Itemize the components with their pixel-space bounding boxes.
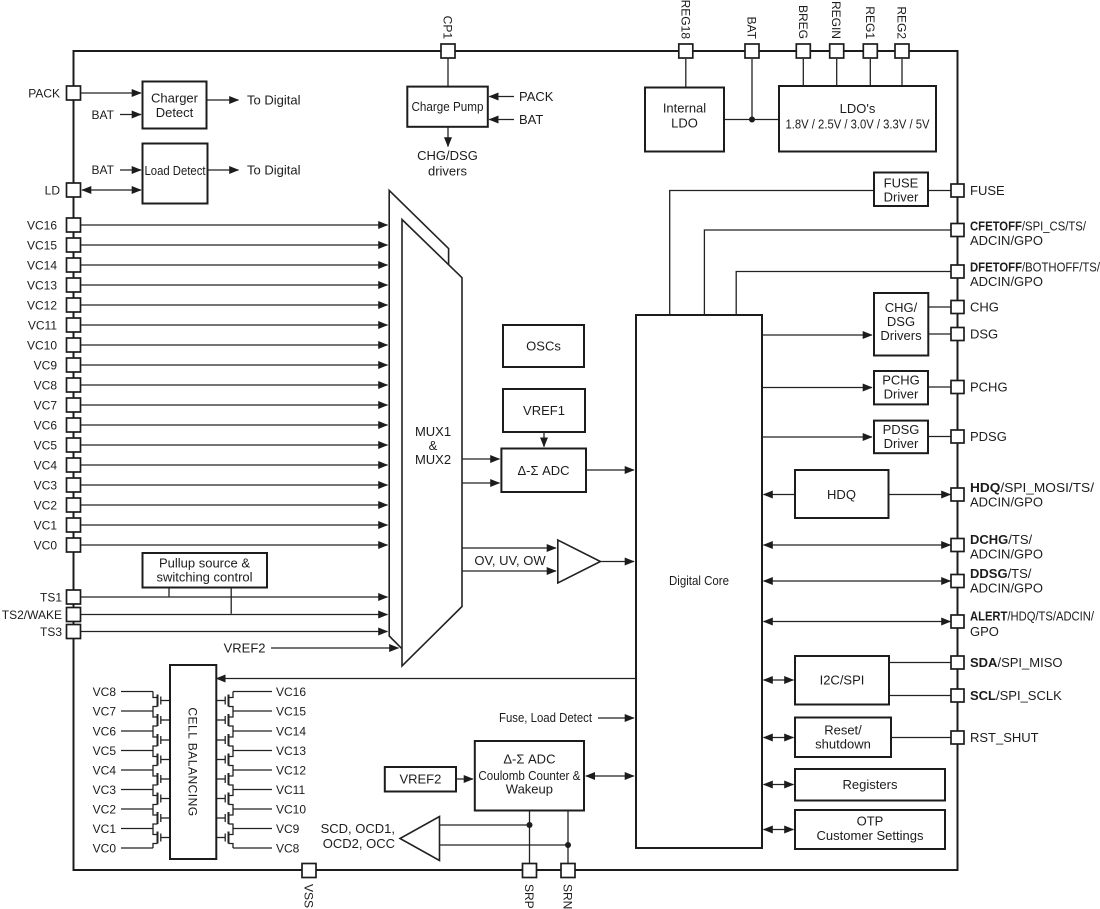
wire TS3 pin to MUX xyxy=(81,631,388,633)
svg-text:VC0: VC0 xyxy=(34,539,58,553)
mux front outline MUX1 xyxy=(402,220,462,667)
wire VREF2 to Coulomb ADC xyxy=(456,778,473,780)
wire HDQ to HDQ pin xyxy=(889,494,951,496)
pin RST_SHUT xyxy=(951,731,964,744)
svg-text:SDA/SPI_MISO: SDA/SPI_MISO xyxy=(970,655,1062,670)
svg-text:Driver: Driver xyxy=(884,387,919,402)
pin VC10 xyxy=(67,338,81,352)
pin HDQ xyxy=(951,488,964,501)
pin VC3 xyxy=(67,478,81,492)
transistor cell balance left Q4 xyxy=(153,751,170,771)
svg-text:VC7: VC7 xyxy=(34,399,58,413)
pin TS1 xyxy=(67,590,81,604)
svg-text:ADCIN/GPO: ADCIN/GPO xyxy=(970,495,1043,510)
wire VC13 to balance FET right xyxy=(233,750,272,752)
svg-text:BAT: BAT xyxy=(92,163,115,177)
pin VC15 xyxy=(67,238,81,252)
svg-text:Fuse, Load Detect: Fuse, Load Detect xyxy=(499,710,592,725)
wire FUSE Driver to FUSE pin xyxy=(928,190,951,192)
wire VC10 to balance FET right xyxy=(233,808,272,810)
pin PACK xyxy=(67,86,81,100)
svg-text:VC8: VC8 xyxy=(34,379,58,393)
pin VC2 xyxy=(67,498,81,512)
mux back outline MUX2 xyxy=(389,190,448,648)
svg-text:OTP: OTP xyxy=(857,814,884,829)
block Reset/shutdown xyxy=(795,718,891,758)
pin VC11 xyxy=(67,318,81,332)
wire Digital Core to I2C/SPI xyxy=(764,679,794,681)
svg-text:FUSE: FUSE xyxy=(884,176,919,191)
svg-text:Registers: Registers xyxy=(843,777,898,792)
svg-text:Detect: Detect xyxy=(156,105,194,120)
wire MUX to OV comparator in1 xyxy=(462,547,556,549)
wire comparator to Digital Core xyxy=(600,561,634,563)
wire Digital Core to DDSG pin xyxy=(764,580,951,582)
wire VC9 pin to MUX xyxy=(81,364,388,366)
pin VC13 xyxy=(67,278,81,292)
svg-text:VREF2: VREF2 xyxy=(399,772,441,787)
svg-text:Load Detect: Load Detect xyxy=(145,163,206,178)
wire ADC to Digital Core xyxy=(586,469,634,471)
wire Load Detect to digital xyxy=(208,169,239,171)
svg-text:Drivers: Drivers xyxy=(880,328,922,343)
wire Digital Core to PCHG Driver xyxy=(762,387,872,389)
pin REGIN xyxy=(830,44,844,58)
pin BREG xyxy=(796,44,810,58)
wire Digital Core to HDQ xyxy=(764,494,796,496)
block VREF2 reference xyxy=(385,767,456,792)
svg-text:PACK: PACK xyxy=(519,89,554,104)
wire REG1 pin to LDOs xyxy=(869,59,871,87)
block Digital Core xyxy=(636,315,762,848)
wire FUSE Driver to Digital Core xyxy=(670,191,874,316)
transistor cell balance left Q7 xyxy=(153,809,170,829)
svg-text:SCL/SPI_SCLK: SCL/SPI_SCLK xyxy=(970,688,1062,703)
pin VSS xyxy=(302,864,316,878)
svg-text:CP1: CP1 xyxy=(441,16,455,40)
svg-text:VC16: VC16 xyxy=(27,219,57,233)
block FUSE Driver xyxy=(874,173,928,207)
transistor cell balance left Q3 xyxy=(153,731,170,751)
svg-text:Reset/: Reset/ xyxy=(824,723,862,738)
svg-text:DSG: DSG xyxy=(970,327,998,342)
svg-text:Δ-Σ ADC: Δ-Σ ADC xyxy=(517,463,569,478)
svg-text:To Digital: To Digital xyxy=(247,93,301,108)
wire pullup control to TS2 line xyxy=(230,588,232,614)
svg-text:VC2: VC2 xyxy=(34,499,58,513)
svg-text:OV, UV, OW: OV, UV, OW xyxy=(474,553,546,568)
svg-text:REG1: REG1 xyxy=(863,6,877,39)
svg-text:ADCIN/GPO: ADCIN/GPO xyxy=(970,581,1043,596)
wire VC14 to balance FET right xyxy=(233,730,272,732)
svg-text:Charge Pump: Charge Pump xyxy=(412,99,484,114)
wire VC6 to balance FET left xyxy=(121,730,153,732)
svg-text:DSG: DSG xyxy=(887,314,915,329)
wire CHG Drivers to CHG pin xyxy=(928,306,950,308)
pin LD xyxy=(67,183,81,197)
svg-text:VC8: VC8 xyxy=(93,685,117,699)
wire Coulomb ADC to SRN pin xyxy=(567,811,569,864)
wire VC11 pin to MUX xyxy=(81,324,388,326)
wire VC3 to balance FET left xyxy=(121,789,153,791)
transistor cell balance right Q10 xyxy=(216,711,233,731)
svg-text:ADCIN/GPO: ADCIN/GPO xyxy=(970,233,1043,248)
svg-text:BAT: BAT xyxy=(745,17,759,40)
wire VC4 pin to MUX xyxy=(81,464,388,466)
wire VC6 pin to MUX xyxy=(81,424,388,426)
wire VC13 pin to MUX xyxy=(81,284,388,286)
transistor cell balance right Q11 xyxy=(216,731,233,751)
pin VC9 xyxy=(67,358,81,372)
svg-text:HDQ: HDQ xyxy=(827,487,856,502)
svg-text:PACK: PACK xyxy=(28,87,60,101)
wire PCHG Driver to PCHG pin xyxy=(928,386,951,388)
wire VC5 pin to MUX xyxy=(81,444,388,446)
svg-text:VC4: VC4 xyxy=(93,764,117,778)
svg-text:VC11: VC11 xyxy=(28,319,57,333)
svg-text:BREG: BREG xyxy=(796,5,810,39)
svg-text:Charger: Charger xyxy=(151,91,199,106)
transistor cell balance right Q9 xyxy=(216,692,233,712)
wire REGIN pin to LDOs xyxy=(836,59,838,87)
wire VC14 pin to MUX xyxy=(81,264,388,266)
svg-text:1.8V / 2.5V / 3.0V / 3.3V / 5V: 1.8V / 2.5V / 3.0V / 3.3V / 5V xyxy=(786,117,930,132)
wire TS2/WAKE pin to MUX xyxy=(81,614,388,616)
wire Digital Core to DCHG pin xyxy=(764,544,951,546)
wire VC3 pin to MUX xyxy=(81,484,388,486)
svg-text:LDO: LDO xyxy=(671,116,698,131)
svg-text:OSCs: OSCs xyxy=(526,339,561,354)
svg-text:PCHG: PCHG xyxy=(970,380,1008,395)
svg-text:VC9: VC9 xyxy=(276,822,300,836)
pin PCHG xyxy=(951,381,964,394)
svg-text:LD: LD xyxy=(45,184,61,198)
svg-text:TS2/WAKE: TS2/WAKE xyxy=(2,608,62,622)
pin SDA xyxy=(951,656,964,669)
svg-text:VC15: VC15 xyxy=(27,239,57,253)
wire VC0 pin to MUX xyxy=(81,544,388,546)
wire VC8 pin to MUX xyxy=(81,384,388,386)
wire VC9 to balance FET right xyxy=(233,828,272,830)
wire VC2 to balance FET left xyxy=(121,808,153,810)
svg-text:PDSG: PDSG xyxy=(883,422,920,437)
wire VC8 to balance FET right xyxy=(233,847,272,849)
svg-text:switching control: switching control xyxy=(156,570,252,585)
svg-text:MUX2: MUX2 xyxy=(415,452,451,467)
wire BREG pin to LDOs xyxy=(802,59,804,87)
svg-text:VC13: VC13 xyxy=(276,744,306,758)
block Load Detect xyxy=(143,144,208,204)
svg-text:Wakeup: Wakeup xyxy=(506,782,553,797)
wire VC8 to balance FET left xyxy=(121,691,153,693)
wire Digital Core to ALERT pin xyxy=(764,621,951,623)
svg-text:OCD2, OCC: OCD2, OCC xyxy=(323,836,395,851)
transistor cell balance left Q5 xyxy=(153,770,170,790)
svg-text:VSS: VSS xyxy=(302,884,316,908)
svg-text:ADCIN/GPO: ADCIN/GPO xyxy=(970,547,1043,562)
svg-text:CHG: CHG xyxy=(970,300,999,315)
svg-text:VC5: VC5 xyxy=(34,439,58,453)
wire VC7 pin to MUX xyxy=(81,404,388,406)
wire VC15 pin to MUX xyxy=(81,244,388,246)
svg-text:CELL BALANCING: CELL BALANCING xyxy=(186,707,200,816)
svg-text:shutdown: shutdown xyxy=(815,737,871,752)
svg-text:VC16: VC16 xyxy=(276,685,306,699)
block HDQ xyxy=(795,470,889,518)
svg-text:Driver: Driver xyxy=(884,190,919,205)
block Pullup source and switching control xyxy=(143,553,268,588)
wire Coulomb ADC to SRP pin xyxy=(529,811,531,864)
wire Digital Core to PDSG Driver xyxy=(762,436,872,438)
svg-text:CFETOFF/SPI_CS/TS/: CFETOFF/SPI_CS/TS/ xyxy=(970,219,1086,234)
block Charger Detect xyxy=(143,82,207,129)
wire PACK pin to Charger Detect xyxy=(81,92,141,94)
wire VC5 to balance FET left xyxy=(121,750,153,752)
svg-text:GPO: GPO xyxy=(970,624,999,639)
transistor cell balance left Q6 xyxy=(153,790,170,810)
svg-text:VC4: VC4 xyxy=(34,459,58,473)
svg-text:SRN: SRN xyxy=(561,884,575,909)
svg-text:Digital Core: Digital Core xyxy=(669,573,729,588)
svg-text:FUSE: FUSE xyxy=(970,183,1005,198)
pin VC1 xyxy=(67,518,81,532)
wire TS1 pin to MUX xyxy=(81,596,388,598)
svg-text:VREF1: VREF1 xyxy=(523,403,565,418)
pin DFETOFF xyxy=(951,265,964,278)
wire MUX to ADC ch2 xyxy=(462,482,500,484)
pin SRP xyxy=(523,864,537,878)
pin VC4 xyxy=(67,458,81,472)
svg-text:VC12: VC12 xyxy=(276,764,306,778)
svg-text:VC3: VC3 xyxy=(34,479,58,493)
svg-text:DDSG/TS/: DDSG/TS/ xyxy=(970,566,1032,581)
svg-text:SRP: SRP xyxy=(522,884,536,909)
svg-text:CHG/DSG: CHG/DSG xyxy=(417,148,478,163)
wire BAT to Load Detect xyxy=(120,169,141,171)
wire Internal LDO to LDOs block xyxy=(724,119,779,121)
wire VC0 to balance FET left xyxy=(121,847,153,849)
wire VC12 to balance FET right xyxy=(233,769,272,771)
wire SRP sense to current comparator xyxy=(440,824,530,826)
wire VC2 pin to MUX xyxy=(81,504,388,506)
wire SRN sense to current comparator xyxy=(440,844,569,846)
svg-text:VC14: VC14 xyxy=(276,725,306,739)
pin CHG xyxy=(951,301,964,314)
svg-text:VC3: VC3 xyxy=(93,783,117,797)
block Delta-Sigma ADC xyxy=(501,449,586,493)
svg-text:REGIN: REGIN xyxy=(829,1,843,39)
svg-text:DFETOFF/BOTHOFF/TS/: DFETOFF/BOTHOFF/TS/ xyxy=(970,260,1100,275)
block Charge Pump xyxy=(407,87,488,127)
wire Digital Core to Reset/shutdown xyxy=(764,737,794,739)
comparator OV/UV/OW xyxy=(558,540,601,583)
svg-text:MUX1: MUX1 xyxy=(415,424,451,439)
transistor cell balance left Q8 xyxy=(153,829,170,849)
wire Charger Detect to digital xyxy=(207,99,239,101)
svg-text:DCHG/TS/: DCHG/TS/ xyxy=(970,532,1033,547)
block Cell Balancing xyxy=(170,665,216,859)
svg-text:Pullup source &: Pullup source & xyxy=(159,556,250,571)
pin VC14 xyxy=(67,258,81,272)
svg-text:VC10: VC10 xyxy=(276,803,306,817)
wire LD pin to Load Detect (bidirectional) xyxy=(82,189,141,191)
svg-text:BAT: BAT xyxy=(519,112,543,127)
block VREF1 xyxy=(503,389,585,432)
pin REG18 xyxy=(679,44,693,58)
svg-text:PDSG: PDSG xyxy=(970,429,1007,444)
svg-text:Driver: Driver xyxy=(884,436,919,451)
svg-text:VC2: VC2 xyxy=(93,803,117,817)
svg-text:VC11: VC11 xyxy=(276,783,305,797)
wire Reset/shutdown to RST_SHUT pin xyxy=(891,737,951,739)
pin VC7 xyxy=(67,398,81,412)
block PCHG Driver xyxy=(874,371,928,404)
pin VC12 xyxy=(67,298,81,312)
svg-text:TS1: TS1 xyxy=(40,591,62,605)
block CHG/DSG Drivers xyxy=(874,293,928,356)
wire Fuse Load Detect to Digital Core xyxy=(598,717,634,719)
wire VC10 pin to MUX xyxy=(81,344,388,346)
wire Coulomb ADC to Digital Core xyxy=(586,775,634,777)
block OTP Customer Settings xyxy=(795,810,945,849)
svg-text:VC0: VC0 xyxy=(93,842,117,856)
transistor cell balance right Q14 xyxy=(216,790,233,810)
svg-text:VC6: VC6 xyxy=(93,725,117,739)
svg-text:Customer Settings: Customer Settings xyxy=(817,828,924,843)
pin VC0 xyxy=(67,538,81,552)
wire BAT pin down to LDO rail xyxy=(751,59,753,120)
pin CFETOFF xyxy=(951,224,964,237)
wire I2C/SPI to SCL pin xyxy=(889,695,951,697)
svg-text:REG2: REG2 xyxy=(895,6,909,39)
transistor cell balance right Q15 xyxy=(216,809,233,829)
wire pullup control to TS1 line xyxy=(168,588,170,597)
svg-text:BAT: BAT xyxy=(92,108,115,122)
svg-text:PCHG: PCHG xyxy=(882,373,920,388)
block I2C/SPI xyxy=(795,656,889,705)
pin REG1 xyxy=(863,44,877,58)
svg-text:I2C/SPI: I2C/SPI xyxy=(820,673,865,688)
wire VC12 pin to MUX xyxy=(81,304,388,306)
junction SRP sense xyxy=(527,822,533,828)
pin VC5 xyxy=(67,438,81,452)
transistor cell balance left Q1 xyxy=(153,692,170,712)
wire VC4 to balance FET left xyxy=(121,769,153,771)
wire VC7 to balance FET left xyxy=(121,710,153,712)
wire BAT to Charge Pump xyxy=(489,119,514,121)
svg-text:VC15: VC15 xyxy=(276,705,306,719)
wire REG18 pin to Internal LDO xyxy=(685,59,687,88)
transistor cell balance right Q16 xyxy=(216,829,233,849)
pin DDSG xyxy=(951,575,964,588)
wire CP1 pin to Charge Pump xyxy=(447,58,449,87)
transistor cell balance right Q12 xyxy=(216,751,233,771)
svg-text:VC7: VC7 xyxy=(93,705,117,719)
svg-text:ADCIN/GPO: ADCIN/GPO xyxy=(970,274,1043,289)
pin FUSE xyxy=(951,184,964,197)
pin SCL xyxy=(951,689,964,702)
wire BAT to Charger Detect xyxy=(120,114,141,116)
pin REG2 xyxy=(895,44,909,58)
svg-text:VC1: VC1 xyxy=(93,822,117,836)
pin VC16 xyxy=(67,218,81,232)
wire VC16 to balance FET right xyxy=(233,691,272,693)
wire PACK to Charge Pump xyxy=(489,96,514,98)
junction BAT-LDO rail xyxy=(749,117,755,123)
svg-text:Internal: Internal xyxy=(663,101,706,116)
svg-text:VC13: VC13 xyxy=(27,279,57,293)
pin BAT xyxy=(745,44,759,58)
wire Digital Core to Registers xyxy=(764,784,794,786)
pin VC8 xyxy=(67,378,81,392)
svg-text:drivers: drivers xyxy=(428,164,468,179)
junction SRN sense xyxy=(565,842,571,848)
svg-text:&: & xyxy=(429,438,438,453)
wire CHG Drivers to DSG pin xyxy=(928,333,950,335)
wire VC15 to balance FET right xyxy=(233,710,272,712)
svg-text:VREF2: VREF2 xyxy=(224,641,266,656)
svg-text:VC10: VC10 xyxy=(27,339,57,353)
pin TS2/WAKE xyxy=(67,608,81,622)
svg-text:VC9: VC9 xyxy=(34,359,58,373)
svg-text:REG18: REG18 xyxy=(678,0,692,39)
pin VC6 xyxy=(67,418,81,432)
svg-text:ALERT/HDQ/TS/ADCIN/: ALERT/HDQ/TS/ADCIN/ xyxy=(970,609,1094,624)
wire VC11 to balance FET right xyxy=(233,789,272,791)
block Internal LDO xyxy=(645,88,724,152)
wire VREF1 to ADC xyxy=(543,432,545,447)
svg-text:Δ-Σ ADC: Δ-Σ ADC xyxy=(503,752,555,767)
pin DCHG xyxy=(951,539,964,552)
chip outer border xyxy=(74,51,958,870)
wire Charge Pump to CHG/DSG drivers xyxy=(447,127,449,147)
svg-text:To Digital: To Digital xyxy=(247,163,301,178)
transistor cell balance right Q13 xyxy=(216,770,233,790)
pin ALERT xyxy=(951,615,964,628)
wire VC1 to balance FET left xyxy=(121,828,153,830)
wire Digital Core to Cell Balancing xyxy=(216,678,636,680)
svg-text:SCD, OCD1,: SCD, OCD1, xyxy=(321,821,395,836)
svg-text:HDQ/SPI_MOSI/TS/: HDQ/SPI_MOSI/TS/ xyxy=(970,480,1094,495)
svg-text:VC14: VC14 xyxy=(27,259,57,273)
wire REG2 pin to LDOs xyxy=(901,59,903,87)
wire Digital Core to OTP xyxy=(764,829,794,831)
wire MUX to OV comparator in2 xyxy=(462,570,556,572)
block Coulomb Counter ADC xyxy=(475,741,584,811)
pin DSG xyxy=(951,328,964,341)
svg-text:RST_SHUT: RST_SHUT xyxy=(970,730,1039,745)
wire DFETOFF pin to Digital Core xyxy=(736,272,950,316)
block OSCs xyxy=(503,325,584,367)
svg-text:VC1: VC1 xyxy=(34,519,58,533)
wire VREF2 to MUX xyxy=(271,647,399,649)
transistor cell balance left Q2 xyxy=(153,711,170,731)
wire VC16 pin to MUX xyxy=(81,224,388,226)
svg-text:VC6: VC6 xyxy=(34,419,58,433)
pin CP1 xyxy=(441,44,455,58)
block PDSG Driver xyxy=(874,421,928,454)
block Registers xyxy=(795,769,945,801)
wire CFETOFF pin to Digital Core xyxy=(704,230,950,315)
wire I2C/SPI to SDA pin xyxy=(889,662,951,664)
pin PDSG xyxy=(951,430,964,443)
pin TS3 xyxy=(67,625,81,639)
svg-text:LDO's: LDO's xyxy=(840,101,876,116)
pin SRN xyxy=(561,864,575,878)
wire VC1 pin to MUX xyxy=(81,524,388,526)
svg-text:VC12: VC12 xyxy=(27,299,57,313)
wire MUX to ADC ch1 xyxy=(462,458,500,460)
